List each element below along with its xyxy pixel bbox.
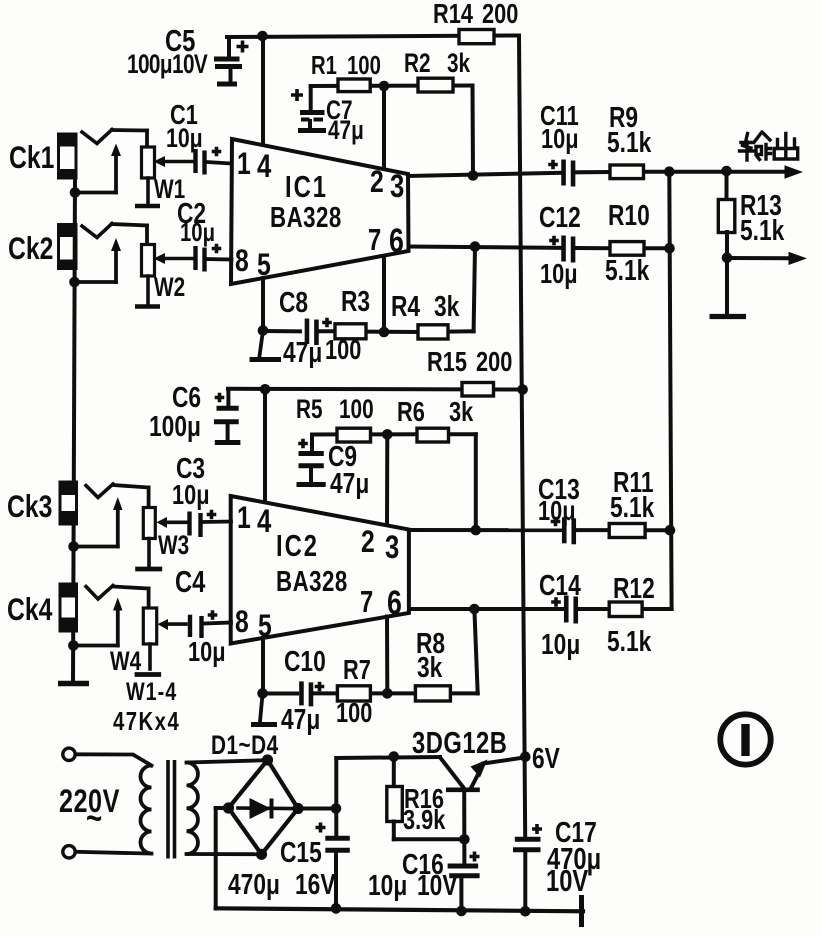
svg-text:R7: R7 (343, 655, 371, 686)
svg-text:10μ: 10μ (172, 480, 210, 511)
svg-text:BA328: BA328 (270, 203, 342, 234)
svg-text:100μ: 100μ (149, 409, 201, 442)
svg-text:3: 3 (385, 529, 399, 566)
svg-text:R1: R1 (311, 51, 337, 80)
svg-text:4: 4 (257, 503, 272, 540)
svg-text:R2: R2 (404, 49, 431, 79)
svg-text:Ck4: Ck4 (7, 592, 53, 628)
svg-text:10μ: 10μ (368, 868, 407, 901)
svg-text:W1-4: W1-4 (126, 677, 177, 706)
svg-text:10μ: 10μ (540, 259, 578, 290)
svg-text:7: 7 (360, 584, 373, 618)
svg-text:3DG12B: 3DG12B (412, 725, 507, 759)
svg-text:3: 3 (390, 168, 404, 205)
svg-text:200: 200 (482, 0, 518, 30)
svg-text:10μ: 10μ (180, 218, 215, 247)
svg-text:10μ: 10μ (538, 496, 576, 527)
svg-text:C8: C8 (279, 285, 308, 318)
svg-text:8: 8 (235, 604, 249, 640)
svg-text:C15: C15 (280, 835, 322, 868)
svg-text:W3: W3 (158, 531, 189, 561)
svg-text:10μ: 10μ (541, 124, 579, 155)
svg-text:6V: 6V (532, 741, 560, 774)
svg-text:~: ~ (86, 798, 102, 838)
svg-text:5.1k: 5.1k (607, 624, 652, 657)
svg-text:R15: R15 (427, 347, 467, 378)
svg-text:W2: W2 (154, 273, 185, 303)
svg-text:C10: C10 (284, 644, 326, 677)
svg-text:Ck2: Ck2 (8, 231, 53, 267)
svg-text:3.9k: 3.9k (403, 805, 445, 836)
svg-text:47μ: 47μ (283, 335, 322, 368)
svg-text:R10: R10 (608, 198, 650, 231)
svg-text:470μ: 470μ (228, 867, 280, 900)
svg-text:8: 8 (235, 243, 249, 279)
svg-text:3k: 3k (447, 49, 471, 79)
svg-text:6: 6 (389, 222, 404, 260)
svg-text:5.1k: 5.1k (605, 253, 650, 286)
svg-text:4: 4 (257, 148, 272, 185)
svg-text:R3: R3 (341, 284, 370, 317)
svg-text:5.1k: 5.1k (607, 125, 652, 158)
svg-text:R5: R5 (296, 395, 323, 425)
svg-text:R6: R6 (397, 397, 425, 428)
svg-text:3k: 3k (434, 289, 460, 322)
svg-text:10V: 10V (417, 868, 458, 901)
svg-text:2: 2 (361, 524, 375, 560)
svg-text:3k: 3k (449, 397, 473, 428)
svg-text:D1~D4: D1~D4 (211, 731, 279, 761)
svg-text:IC1: IC1 (285, 169, 328, 203)
svg-text:16V: 16V (295, 867, 336, 900)
svg-text:BA328: BA328 (276, 567, 348, 598)
svg-text:200: 200 (476, 347, 512, 378)
svg-text:C12: C12 (539, 200, 581, 233)
svg-text:5.1k: 5.1k (610, 490, 655, 523)
svg-text:47μ: 47μ (330, 466, 369, 499)
svg-text:10V: 10V (546, 863, 588, 897)
svg-text:C4: C4 (175, 564, 205, 598)
svg-text:W4: W4 (110, 647, 142, 677)
svg-text:5.1k: 5.1k (740, 213, 785, 246)
svg-text:100: 100 (325, 335, 361, 366)
svg-text:IC2: IC2 (276, 528, 319, 562)
svg-text:10μ: 10μ (541, 627, 580, 660)
svg-text:1: 1 (237, 500, 251, 536)
svg-text:10μ: 10μ (166, 124, 203, 154)
svg-text:10μ: 10μ (188, 637, 226, 668)
svg-text:3k: 3k (417, 650, 443, 683)
svg-text:47μ: 47μ (281, 702, 320, 735)
svg-text:1: 1 (237, 146, 251, 182)
svg-text:7: 7 (368, 222, 381, 256)
svg-text:C14: C14 (539, 568, 581, 601)
svg-text:R14: R14 (433, 0, 473, 30)
svg-text:100: 100 (347, 51, 381, 80)
svg-text:2: 2 (370, 164, 384, 200)
svg-text:Ck1: Ck1 (9, 140, 54, 176)
svg-text:100: 100 (336, 698, 372, 729)
svg-text:47Kx4: 47Kx4 (113, 707, 180, 736)
svg-text:100μ10V: 100μ10V (127, 50, 208, 80)
svg-text:6: 6 (387, 584, 402, 622)
svg-text:100: 100 (339, 395, 374, 425)
svg-text:R12: R12 (613, 571, 655, 604)
svg-text:R4: R4 (391, 289, 421, 322)
svg-text:47μ: 47μ (328, 116, 364, 146)
svg-text:Ck3: Ck3 (7, 489, 52, 525)
